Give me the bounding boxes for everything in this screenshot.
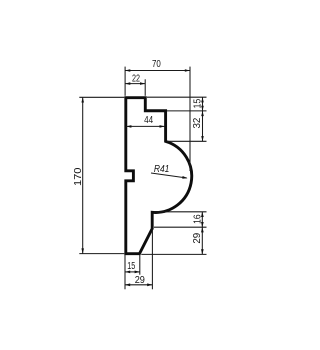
- svg-text:16: 16: [192, 214, 203, 224]
- svg-text:15: 15: [193, 99, 204, 109]
- svg-text:44: 44: [144, 115, 154, 126]
- svg-text:70: 70: [152, 59, 161, 70]
- svg-text:170: 170: [73, 167, 84, 186]
- svg-text:32: 32: [192, 118, 203, 129]
- svg-text:29: 29: [192, 233, 203, 244]
- svg-text:15: 15: [127, 261, 135, 272]
- svg-text:R41: R41: [154, 164, 170, 175]
- svg-text:22: 22: [132, 74, 140, 85]
- svg-text:29: 29: [135, 275, 145, 286]
